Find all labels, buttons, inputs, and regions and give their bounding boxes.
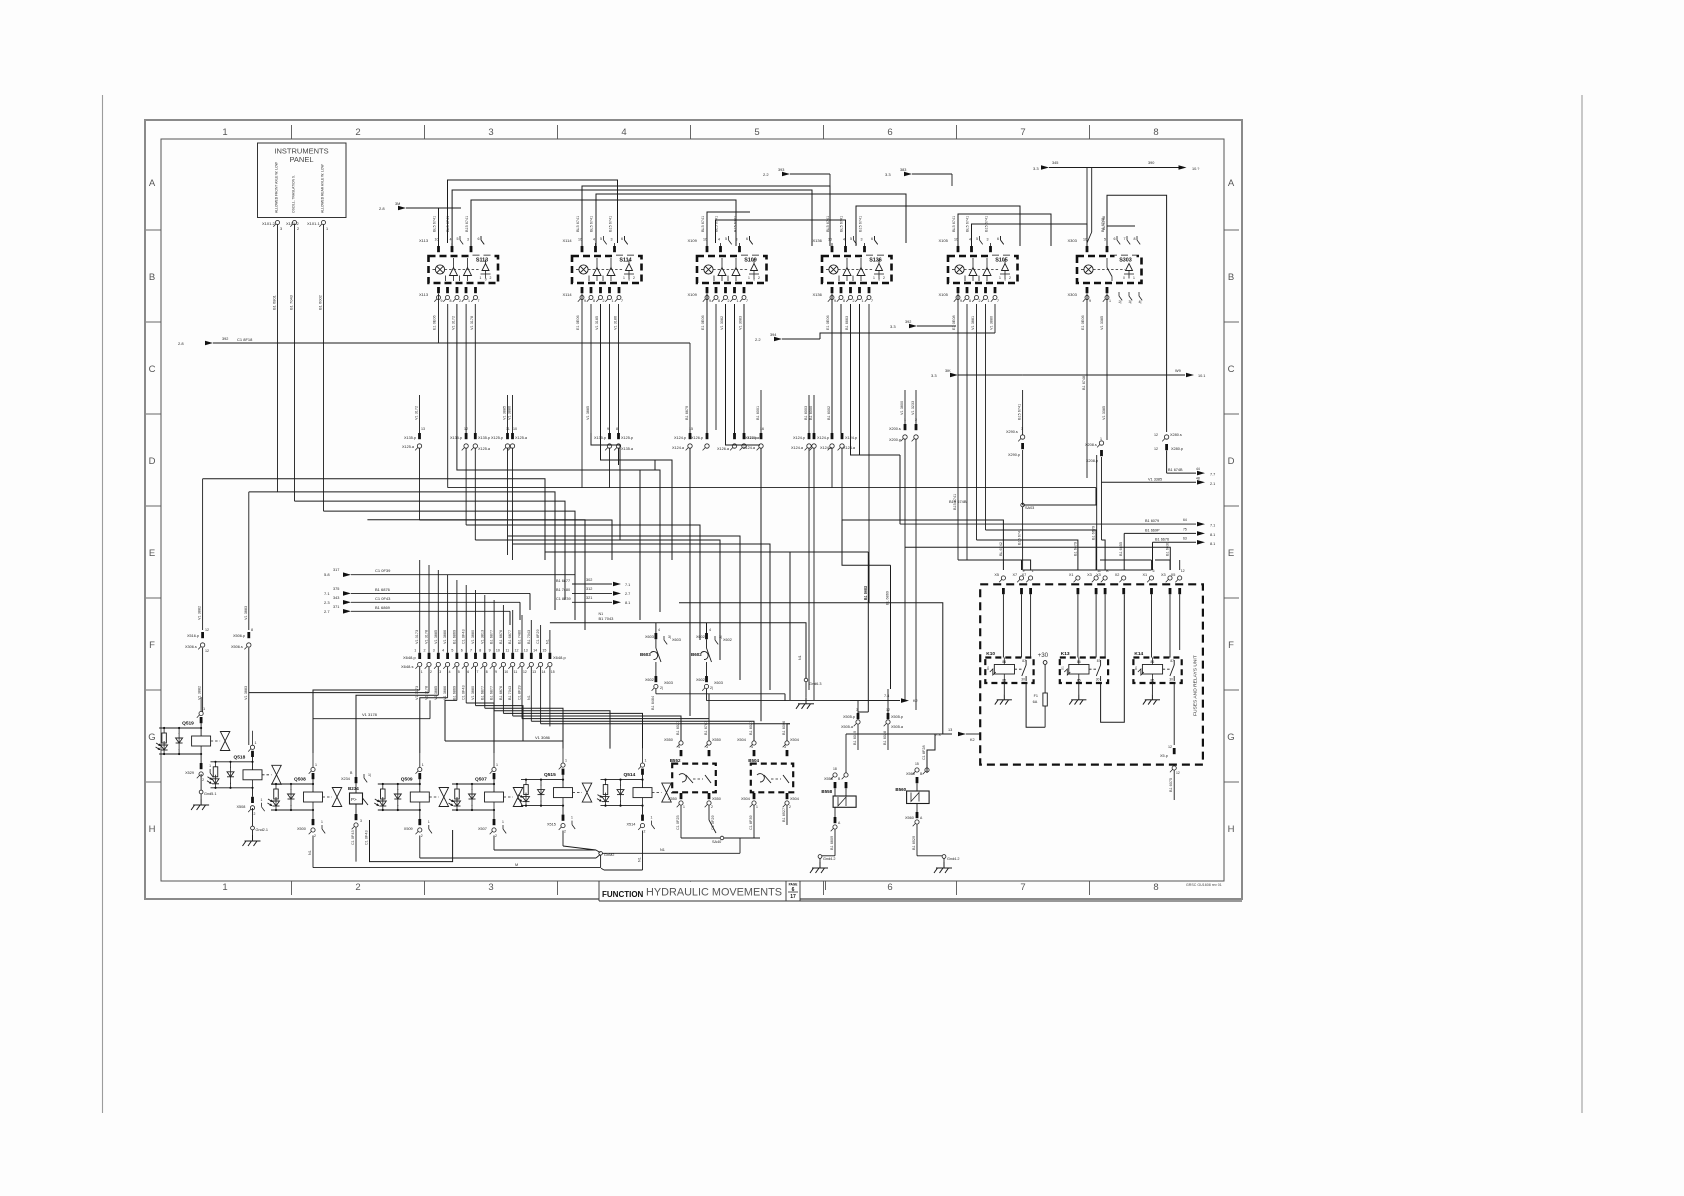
svg-text:B1 6019: B1 6019 [853, 731, 857, 745]
svg-text:X505.p: X505.p [843, 715, 855, 719]
outer drawing frame [145, 120, 1242, 899]
svg-text:9: 9 [960, 299, 962, 303]
svg-text:2: 2 [254, 812, 256, 816]
svg-text:X109: X109 [688, 292, 698, 297]
svg-text:A: A [1228, 178, 1235, 189]
svg-text:B234: B234 [348, 786, 359, 791]
svg-text:G: G [148, 732, 155, 743]
svg-text:1: 1 [565, 759, 567, 763]
connector pins below S105 [957, 287, 960, 293]
svg-text:S105: S105 [995, 258, 1008, 264]
svg-text:X550: X550 [668, 797, 677, 801]
relay K14 [1133, 658, 1181, 684]
svg-text:X290.s: X290.s [1006, 430, 1018, 434]
svg-text:B1 6000: B1 6000 [809, 406, 813, 420]
svg-text:12: 12 [1176, 771, 1180, 775]
svg-text:2: 2 [633, 276, 635, 280]
svg-text:7.1: 7.1 [1210, 524, 1215, 528]
svg-text:V1 3185: V1 3185 [595, 316, 599, 330]
svg-text:ALLOWED REAR AXLE W. LOW: ALLOWED REAR AXLE W. LOW [321, 164, 325, 213]
fuse F1 6A [1043, 693, 1047, 706]
svg-text:B1 7043: B1 7043 [599, 616, 615, 621]
svg-text:E1 0E06: E1 0E06 [701, 315, 705, 330]
row D connector X124 pair near col 4 [689, 433, 692, 439]
svg-text:87: 87 [1097, 659, 1101, 663]
svg-text:B1 7480: B1 7480 [556, 588, 570, 592]
svg-text:B15 6741: B15 6741 [609, 216, 613, 232]
valve symbol of Q507 [513, 788, 523, 798]
svg-text:0: 0 [485, 278, 487, 282]
coil of Q518 [243, 770, 262, 780]
connector pins below S109 [706, 287, 709, 293]
svg-text:X602: X602 [645, 678, 654, 682]
svg-text:X529: X529 [185, 771, 194, 775]
svg-text:X550: X550 [712, 738, 721, 742]
svg-text:X515: X515 [547, 823, 556, 827]
svg-text:B: B [149, 272, 155, 283]
wire bundle below S109 [706, 294, 708, 434]
svg-text:2|: 2| [660, 686, 663, 690]
svg-text:12: 12 [464, 427, 468, 431]
svg-text:B1 6676: B1 6676 [1155, 538, 1169, 542]
long horizontal row D wire [660, 487, 1096, 489]
svg-text:390: 390 [1148, 161, 1154, 165]
svg-text:N1: N1 [638, 857, 642, 862]
bottom long wire M [313, 867, 601, 869]
svg-text:B: B [1228, 272, 1234, 283]
svg-text:V1 3883: V1 3883 [244, 606, 248, 620]
svg-text:2.1: 2.1 [1210, 482, 1215, 486]
svg-text:13: 13 [948, 728, 952, 732]
svg-text:2: 2 [789, 805, 791, 809]
svg-text:X135.p: X135.p [594, 436, 606, 440]
svg-text:5: 5 [600, 237, 602, 241]
svg-text:10: 10 [435, 238, 439, 242]
switch contacts inside S114 [593, 268, 601, 276]
lamp inside S105 [955, 265, 964, 274]
wire B1 6679 vertical right [1096, 455, 1098, 570]
coil of Q509 [410, 792, 429, 802]
svg-text:4: 4 [718, 238, 720, 242]
svg-text:15: 15 [542, 649, 546, 653]
svg-text:B1 6006: B1 6006 [782, 721, 786, 735]
instruments panel box [258, 143, 347, 218]
svg-text:X507: X507 [478, 827, 487, 831]
svg-text:4: 4 [593, 238, 595, 242]
svg-text:B1 7043: B1 7043 [508, 686, 512, 700]
svg-text:X516.p: X516.p [187, 634, 199, 638]
svg-text:3: 3 [439, 670, 441, 674]
svg-text:A: A [149, 178, 156, 189]
svg-text:D1: D1 [1060, 666, 1064, 670]
svg-text:9: 9 [441, 299, 443, 303]
svg-text:2: 2 [459, 299, 461, 303]
wire from instruments panel 2 [294, 225, 296, 502]
svg-text:1: 1 [683, 805, 685, 809]
svg-text:1: 1 [756, 805, 758, 809]
svg-text:X560: X560 [906, 772, 915, 776]
svg-text:K13: K13 [1061, 651, 1070, 657]
svg-text:K10: K10 [986, 651, 995, 657]
svg-text:2: 2 [979, 299, 981, 303]
svg-text:X124.p: X124.p [745, 436, 757, 440]
svg-text:7: 7 [871, 299, 873, 303]
svg-text:X1: X1 [1143, 573, 1148, 577]
svg-text:1: 1 [428, 820, 430, 824]
svg-text:N1: N1 [798, 655, 802, 660]
svg-text:3.3: 3.3 [885, 172, 891, 177]
svg-text:7: 7 [746, 299, 748, 303]
svg-text:87: 87 [1022, 659, 1026, 663]
relay K13 [1060, 658, 1108, 684]
svg-text:9: 9 [489, 649, 491, 653]
svg-text:B1 6479: B1 6479 [1073, 542, 1077, 556]
svg-text:B1 6877: B1 6877 [556, 579, 570, 583]
svg-text:BL5 6741: BL5 6741 [590, 216, 594, 232]
svg-text:6: 6 [467, 670, 469, 674]
svg-text:V1 3880: V1 3880 [990, 316, 994, 330]
svg-text:3: 3 [488, 882, 493, 893]
svg-text:4|: 4| [1139, 300, 1142, 304]
svg-text:B1 6869: B1 6869 [375, 605, 391, 610]
svg-text:C1 8F28: C1 8F28 [922, 745, 926, 760]
svg-text:2: 2 [355, 882, 360, 893]
svg-text:1: 1 [315, 763, 317, 767]
svg-text:X135.a: X135.a [621, 447, 634, 451]
svg-text:V1 3083: V1 3083 [739, 316, 743, 330]
svg-text:X124.a: X124.a [843, 446, 856, 450]
svg-text:44: 44 [1196, 467, 1200, 471]
svg-text:2: 2 [1009, 276, 1011, 280]
svg-text:8: 8 [969, 299, 971, 303]
svg-text:1: 1 [222, 882, 227, 893]
coil of Q508 [304, 792, 323, 802]
wire K13 87 loop [1101, 594, 1125, 722]
svg-text:8: 8 [251, 628, 253, 632]
svg-text:B1 6869: B1 6869 [452, 686, 456, 700]
bottom wire N1 [602, 852, 740, 854]
svg-text:C1 8F29: C1 8F29 [518, 685, 522, 700]
svg-text:N1: N1 [599, 612, 604, 616]
svg-text:2: 2 [430, 670, 432, 674]
valve symbol of Q508 [332, 788, 342, 798]
svg-text:B1 6482: B1 6482 [863, 586, 867, 600]
wire X516 branch [202, 479, 204, 630]
svg-text:7.7: 7.7 [1210, 473, 1215, 477]
svg-text:2.7: 2.7 [324, 609, 330, 614]
svg-text:X505.a: X505.a [891, 725, 904, 729]
coil of Q514 [633, 788, 652, 798]
svg-text:X113: X113 [419, 238, 429, 243]
switch contacts inside S109 [718, 268, 726, 276]
svg-text:B1 6028: B1 6028 [883, 731, 887, 745]
connector pins below S113 [437, 287, 440, 293]
row D connector pair right of S114 [608, 433, 611, 439]
svg-text:5: 5 [754, 127, 759, 138]
svg-text:X124.p: X124.p [817, 436, 829, 440]
svg-text:1: 1 [321, 820, 323, 824]
stub pins above S114 [603, 236, 605, 240]
svg-text:V1 3172: V1 3172 [452, 316, 456, 330]
row D connectors X124 group col 4-5 [808, 433, 811, 439]
column ticks bottom [291, 881, 293, 895]
svg-text:10: 10 [703, 238, 707, 242]
svg-text:7: 7 [478, 299, 480, 303]
svg-text:Gnd4.2: Gnd4.2 [823, 857, 835, 861]
wire X506 branch [248, 492, 250, 630]
svg-text:2: 2 [644, 830, 646, 834]
svg-text:X602: X602 [696, 635, 705, 639]
svg-text:V1 3173: V1 3173 [415, 630, 419, 644]
svg-text:8.1: 8.1 [1210, 533, 1215, 537]
svg-text:X1: X1 [1069, 573, 1074, 577]
svg-text:V1 3233: V1 3233 [911, 401, 915, 415]
svg-text:X3: X3 [1087, 573, 1092, 577]
svg-text:375: 375 [333, 587, 339, 591]
svg-text:2: 2 [495, 834, 497, 838]
svg-text:2.8: 2.8 [178, 341, 184, 346]
svg-text:BL5 6741: BL5 6741 [701, 216, 705, 232]
ground below K14 [1151, 683, 1153, 694]
svg-text:9: 9 [495, 670, 497, 674]
svg-text:5: 5 [458, 670, 460, 674]
svg-text:X290.p: X290.p [1008, 453, 1020, 457]
svg-text:FUNCTION: FUNCTION [602, 890, 644, 899]
bottom connector X508 [252, 788, 254, 797]
svg-text:1: 1 [502, 820, 504, 824]
svg-text:3: 3 [611, 238, 613, 242]
connector pins above S303 [1086, 246, 1089, 252]
svg-text:B1 6464: B1 6464 [651, 696, 655, 710]
svg-text:6: 6 [887, 127, 892, 138]
reference arrows right row D [1167, 472, 1196, 474]
row D connector pair under S113 [465, 433, 468, 439]
valve symbol of Q519 [220, 732, 230, 742]
svg-text:4: 4 [969, 238, 971, 242]
svg-text:312: 312 [586, 587, 592, 591]
bottom wire around Q508 [370, 820, 453, 862]
svg-text:1: 1 [496, 763, 498, 767]
svg-text:V1 3086: V1 3086 [535, 735, 551, 740]
svg-text:4: 4 [709, 628, 711, 632]
svg-text:N1: N1 [660, 848, 665, 852]
svg-text:G: G [1227, 732, 1234, 743]
svg-text:6A: 6A [1033, 700, 1038, 704]
switch contact inside S303 [1106, 258, 1108, 268]
svg-text:X550: X550 [712, 797, 721, 801]
svg-text:7: 7 [997, 299, 999, 303]
svg-text:4: 4 [442, 649, 444, 653]
selector symbol inside S136 [876, 264, 883, 271]
svg-text:V1 3178: V1 3178 [362, 712, 378, 717]
svg-text:3M: 3M [395, 202, 400, 206]
svg-text:X504: X504 [737, 738, 746, 742]
reference arrow W9 10.1 row C [1023, 374, 1185, 376]
svg-text:9: 9 [834, 299, 836, 303]
svg-text:4: 4 [449, 670, 451, 674]
svg-text:3|: 3| [1129, 300, 1132, 304]
svg-text:2: 2 [711, 805, 713, 809]
svg-text:X114: X114 [563, 292, 573, 297]
wire bundle below S114 [581, 294, 583, 488]
svg-text:B15 6741: B15 6741 [1018, 404, 1022, 420]
svg-text:B1 7480: B1 7480 [518, 630, 522, 644]
svg-text:48: 48 [1196, 477, 1200, 481]
svg-text:30: 30 [1096, 678, 1100, 682]
svg-text:X114: X114 [563, 238, 573, 243]
svg-text:X125.p: X125.p [491, 436, 503, 440]
svg-text:FUSES AND RELAYS UNIT: FUSES AND RELAYS UNIT [1193, 655, 1199, 716]
svg-text:S113: S113 [476, 258, 488, 264]
svg-text:V1 3886: V1 3886 [508, 406, 512, 420]
switch unit S114 dashed box [572, 256, 642, 283]
svg-text:X648.p: X648.p [553, 655, 566, 660]
svg-text:V1 3178: V1 3178 [425, 630, 429, 644]
wire row E horizontal to K2 feed [679, 603, 943, 734]
svg-text:2: 2 [758, 276, 760, 280]
svg-text:2: 2 [883, 276, 885, 280]
svg-text:V1 3885: V1 3885 [434, 630, 438, 644]
svg-text:X306.s: X306.s [185, 645, 197, 649]
svg-text:1: 1 [326, 227, 328, 231]
svg-text:B1 674B: B1 674B [1168, 468, 1183, 472]
svg-text:8: 8 [616, 427, 618, 431]
svg-text:X602: X602 [696, 678, 705, 682]
svg-text:9: 9 [709, 299, 711, 303]
wire bundle below S105 [957, 294, 959, 561]
wire K10 87 to fuse [1026, 683, 1045, 727]
svg-text:M: M [515, 863, 518, 867]
fuses and relays unit dashed box [980, 584, 1203, 764]
bottom connector X507 [493, 810, 495, 819]
svg-text:X113: X113 [419, 292, 429, 297]
svg-text:D: D [1228, 456, 1235, 467]
stub pins above S105 [979, 236, 981, 240]
svg-text:X5: X5 [994, 573, 999, 577]
svg-text:BL5 6741: BL5 6741 [826, 216, 830, 232]
svg-text:Q518: Q518 [234, 754, 246, 760]
svg-text:E1 0E06: E1 0E06 [1081, 315, 1085, 330]
svg-text:0: 0 [628, 278, 630, 282]
svg-text:D1: D1 [986, 666, 990, 670]
switch unit S113 dashed box [429, 256, 499, 283]
svg-text:Q508: Q508 [294, 777, 306, 783]
svg-text:V1 3886: V1 3886 [443, 630, 447, 644]
svg-text:B1 6748: B1 6748 [1082, 376, 1086, 390]
svg-text:8.1: 8.1 [625, 601, 630, 605]
svg-text:1: 1 [612, 299, 614, 303]
svg-text:S114: S114 [619, 258, 631, 264]
wire BL 6869 vertical [890, 565, 892, 689]
svg-text:2: 2 [728, 299, 730, 303]
svg-text:2|: 2| [1119, 300, 1122, 304]
row D connector pins below S109 wires [706, 433, 709, 439]
svg-text:B1 6075: B1 6075 [1169, 778, 1173, 792]
svg-text:2.2: 2.2 [755, 337, 761, 342]
svg-text:8: 8 [450, 299, 452, 303]
wire B1 7043 to relays B603 B602 [550, 623, 806, 662]
ground Gnd4.2 right [942, 855, 946, 859]
switch unit S105 dashed box [948, 256, 1018, 283]
svg-text:V1 3385: V1 3385 [1100, 316, 1104, 330]
svg-text:X504: X504 [741, 797, 750, 801]
svg-text:X505.p: X505.p [891, 715, 903, 719]
svg-text:2: 2 [490, 276, 492, 280]
svg-text:Q509: Q509 [401, 777, 413, 783]
svg-text:8: 8 [479, 649, 481, 653]
svg-text:3: 3 [784, 745, 786, 749]
stub pins above S113 [459, 236, 461, 240]
svg-text:B1 6809: B1 6809 [830, 836, 834, 850]
svg-text:345: 345 [1052, 161, 1058, 165]
lamp inside S136 [829, 265, 838, 274]
svg-text:X7: X7 [1022, 573, 1027, 577]
svg-text:371: 371 [333, 605, 339, 609]
svg-text:7: 7 [621, 299, 623, 303]
svg-text:B560: B560 [895, 787, 906, 792]
svg-text:C1 0F43: C1 0F43 [351, 830, 355, 845]
svg-text:B552: B552 [670, 758, 681, 763]
svg-text:B1 6877: B1 6877 [490, 630, 494, 644]
svg-text:C1 0F43: C1 0F43 [375, 596, 391, 601]
row D connector X135.p X125.a [418, 433, 421, 439]
selector symbol inside S105 [1002, 264, 1009, 271]
connector strip X648 wires above [419, 560, 421, 653]
svg-text:B15 6741: B15 6741 [465, 216, 469, 232]
svg-text:X124.p: X124.p [845, 436, 857, 440]
svg-text:B602: B602 [691, 652, 702, 657]
svg-text:E1 0E08: E1 0E08 [952, 315, 956, 330]
connector pins below S303 [1086, 287, 1089, 293]
svg-text:V1 3172: V1 3172 [415, 406, 419, 420]
wire bus above blocks [439, 208, 462, 246]
svg-text:SA03: SA03 [1025, 506, 1034, 510]
svg-text:18: 18 [833, 767, 837, 771]
svg-text:1: 1 [1109, 299, 1111, 303]
lamp inside S113 [435, 265, 444, 274]
selector symbol inside S113 [482, 264, 489, 271]
svg-text:C1 0F29: C1 0F29 [711, 815, 715, 830]
wire from instruments panel 1 [277, 225, 279, 492]
svg-text:5: 5 [850, 237, 852, 241]
svg-text:12: 12 [205, 649, 209, 653]
ground Gnd5.1 below Q519 [200, 774, 202, 790]
svg-text:6: 6 [478, 237, 480, 241]
svg-text:X7: X7 [1013, 573, 1018, 577]
svg-text:X505.a: X505.a [841, 725, 854, 729]
svg-text:10: 10 [496, 649, 500, 653]
svg-text:HYDRAULIC MOVEMENTS: HYDRAULIC MOVEMENTS [646, 887, 782, 899]
svg-text:X208.p: X208.p [1086, 459, 1098, 463]
svg-text:B558: B558 [821, 789, 832, 794]
svg-text:V1 3880: V1 3880 [471, 630, 475, 644]
svg-text:V1 3882: V1 3882 [198, 606, 202, 620]
coil of Q507 [485, 792, 504, 802]
svg-text:13: 13 [421, 427, 425, 431]
svg-text:B1 6869: B1 6869 [452, 630, 456, 644]
svg-text:1: 1 [571, 816, 573, 820]
svg-text:B1 6927: B1 6927 [782, 808, 786, 822]
svg-text:2: 2 [424, 649, 426, 653]
wire S303 pin5 elbow to right side [1107, 195, 1167, 432]
svg-text:383: 383 [900, 168, 906, 172]
svg-text:1|: 1| [368, 773, 371, 777]
svg-text:1: 1 [651, 816, 653, 820]
bottom wires from connectors [312, 836, 314, 868]
svg-text:0: 0 [1123, 276, 1125, 280]
svg-text:5: 5 [725, 237, 727, 241]
svg-text:75: 75 [1183, 528, 1187, 532]
